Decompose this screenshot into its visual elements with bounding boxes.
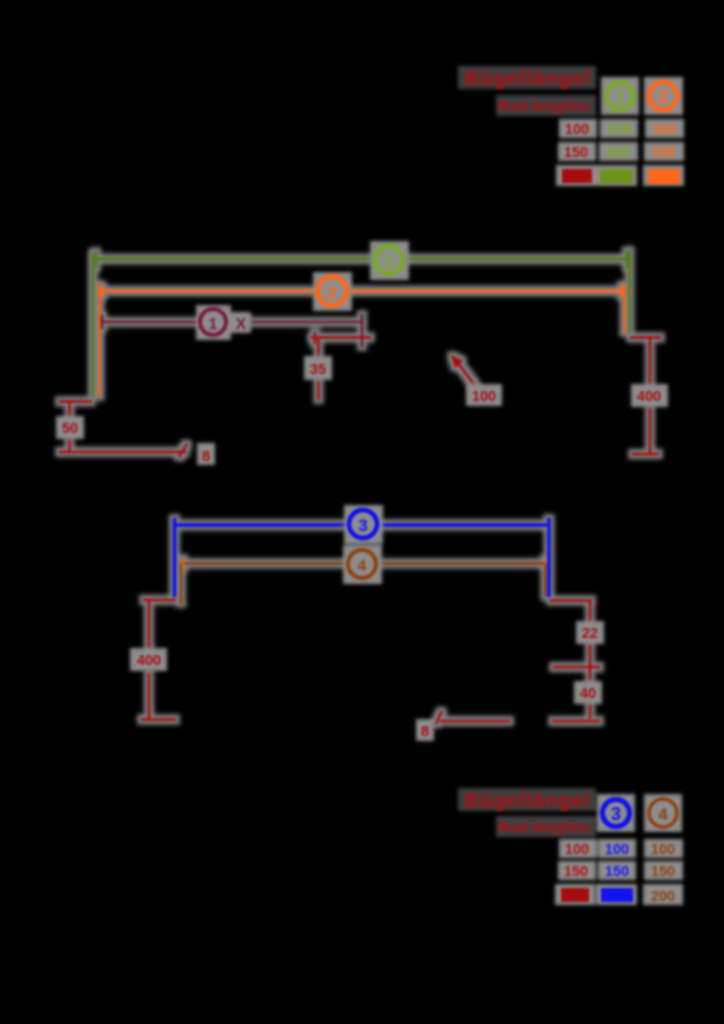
labels and markers layer xyxy=(62,68,680,905)
halo casing layer for lines xyxy=(59,250,661,724)
colored lines layer xyxy=(59,250,661,724)
overlay label boxes layer xyxy=(56,241,668,741)
label background boxes layer xyxy=(458,66,684,905)
